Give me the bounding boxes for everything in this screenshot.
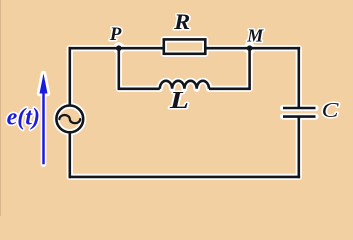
source circle halo	[56, 106, 83, 133]
blue source arrow e(t)	[40, 74, 48, 165]
wire halo: P branch	[119, 48, 160, 89]
svg-text:e(t): e(t)	[7, 105, 40, 131]
resistor R body	[164, 39, 206, 53]
svg-text:C: C	[322, 99, 339, 123]
svg-text:M: M	[246, 25, 264, 45]
svg-text:R: R	[173, 10, 190, 35]
wire: P branch down to inductor	[119, 48, 160, 89]
capacitor plates halo	[283, 108, 316, 117]
resistor halo	[164, 39, 206, 53]
wire: top wire left of resistor (through node P)	[69, 47, 164, 50]
svg-text:P: P	[109, 24, 122, 45]
left edge border artifact	[0, 0, 1, 216]
wire halo: M branch	[209, 48, 250, 89]
wire halo: bottom wire	[70, 174, 299, 180]
wire halo: right vertical	[296, 48, 302, 177]
node M dot	[247, 45, 253, 51]
wire: inductor to M branch up	[209, 48, 250, 89]
wire: right vertical below capacitor	[297, 117, 300, 179]
wire: right vertical above capacitor	[297, 47, 300, 108]
node P dot	[116, 45, 122, 51]
AC source sine symbol	[59, 115, 80, 123]
wire: left vertical below source	[69, 132, 72, 178]
capacitor C plates	[283, 108, 316, 117]
wire: top wire right of resistor (through node M)	[205, 47, 300, 50]
inductor halo	[160, 81, 209, 89]
wire: left vertical above source	[69, 47, 72, 106]
blue arrow halo	[40, 74, 48, 165]
svg-text:L: L	[169, 87, 189, 114]
AC source circle	[56, 106, 83, 133]
wire halo: left vertical	[67, 48, 73, 177]
wire halo: top wire	[70, 45, 299, 51]
inductor L	[160, 81, 209, 89]
wire: bottom wire	[69, 176, 301, 179]
node dots halo	[116, 45, 122, 51]
